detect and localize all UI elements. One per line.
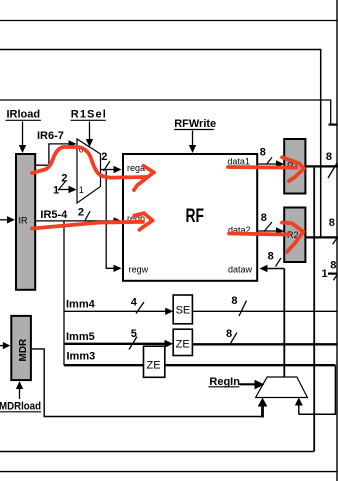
svg-text:8: 8 (231, 295, 237, 307)
register IR (16, 154, 35, 290)
svg-text:8: 8 (268, 251, 274, 263)
wire mux output to rega (101, 169, 115, 171)
register R2 buffer (284, 208, 305, 263)
svg-text:8: 8 (260, 146, 266, 158)
wire RegIn arrow (239, 383, 256, 385)
svg-text:8: 8 (326, 151, 332, 163)
wire R2 output bus (306, 236, 338, 238)
node stub end of line 3 (329, 123, 337, 125)
wire ZE upper output (192, 343, 336, 345)
extender ZE upper (173, 329, 192, 355)
svg-text:MDR: MDR (18, 338, 29, 362)
svg-text:SE: SE (176, 305, 191, 317)
svg-text:IR5-4: IR5-4 (40, 209, 68, 221)
wire bus top line 3 (0, 100, 331, 124)
wire bus top line 1 (0, 20, 338, 22)
svg-text:data1: data1 (227, 157, 250, 167)
wire IR6-7 to mux input 0 (35, 144, 69, 165)
red annotation stroke C: data1 to R1 (228, 157, 304, 181)
wire Imm3 to ZE lower (64, 364, 144, 366)
svg-text:Imm5: Imm5 (66, 331, 95, 343)
wire bottom bus line (0, 451, 314, 453)
wire into IR left (0, 219, 8, 221)
mux U1 R1Sel trapezoid (77, 139, 101, 203)
red annotation stroke B: IR to regb (32, 213, 153, 230)
svg-text:8: 8 (261, 212, 267, 224)
svg-text:1: 1 (79, 185, 84, 195)
red annotation stroke D: data2 to R2 (229, 223, 303, 252)
wire MDRload arrow up (19, 388, 21, 399)
wire ZE lower output bus (165, 364, 336, 366)
wire into MDR left (0, 345, 4, 347)
svg-text:RF: RF (186, 205, 204, 227)
wire SE output (192, 310, 336, 312)
wire bus top line 2 (0, 50, 321, 238)
wire mux2 left input arrow (261, 403, 264, 418)
svg-text:2: 2 (101, 151, 107, 163)
svg-text:8: 8 (329, 217, 335, 229)
extender ZE lower (144, 346, 165, 377)
svg-text:IRload: IRload (7, 109, 41, 121)
wire IRload arrow (22, 122, 24, 147)
wire vertical bus x=314 (313, 166, 315, 451)
wire R1Sel arrow (89, 122, 91, 141)
svg-text:Imm4: Imm4 (66, 299, 96, 311)
register R1 buffer (284, 139, 305, 194)
wire MDR output to RegIn mux (32, 349, 263, 417)
svg-text:2: 2 (78, 207, 84, 219)
wire dataw vertical from RegIn mux (283, 269, 285, 378)
wire dataw into RF (266, 268, 284, 270)
svg-text:ZE: ZE (147, 360, 161, 372)
wire data1 out (258, 163, 277, 165)
svg-text:RFWrite: RFWrite (174, 118, 216, 130)
wire data2 out (258, 230, 277, 232)
svg-text:IR6-7: IR6-7 (37, 130, 64, 142)
wire branch to regw (106, 170, 114, 269)
svg-text:R1Sel: R1Sel (71, 109, 107, 121)
extender SE (173, 295, 192, 324)
svg-text:regw: regw (129, 265, 149, 275)
register MDR (11, 316, 31, 380)
svg-text:dataw: dataw (228, 265, 253, 275)
wire Imm5 to ZE (64, 343, 166, 345)
wire RFWrite arrow (192, 131, 194, 147)
wire R1 output bus (306, 165, 338, 167)
wire bottom border line (0, 471, 337, 473)
red annotation stroke A: IR to rega (32, 147, 154, 190)
svg-text:4: 4 (131, 297, 138, 309)
svg-text:8: 8 (226, 328, 232, 340)
wire Imm4 to SE (64, 310, 166, 312)
wire right border bus (336, 0, 338, 481)
svg-text:8: 8 (330, 260, 336, 272)
svg-text:MDRload: MDRload (0, 401, 41, 413)
wire ZE lower bus down right (299, 365, 336, 414)
wire branch to Imm rows (63, 221, 65, 365)
svg-text:IR: IR (19, 216, 29, 226)
svg-text:2: 2 (61, 173, 67, 185)
svg-text:1: 1 (322, 268, 328, 280)
wire IR5-4 to regb (35, 220, 114, 222)
register file RF (123, 154, 257, 281)
svg-text:Imm3: Imm3 (67, 351, 96, 363)
mux U2 RegIn trapezoid (256, 377, 308, 398)
svg-text:ZE: ZE (176, 339, 190, 351)
wire mux2 right input arrow (298, 403, 300, 414)
